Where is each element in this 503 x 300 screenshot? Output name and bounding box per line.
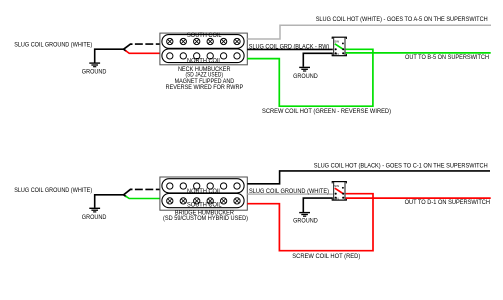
svg-text:SOUTH COIL: SOUTH COIL — [187, 32, 222, 39]
screw polepieces: bridge south coil (bottom row) — [167, 198, 241, 204]
wire: bridge slug coil ground white (gray) to switch — [247, 193, 334, 195]
pickup: bridge humbucker body — [160, 177, 247, 210]
wire: bridge slug coil hot black to superswitch C-1 — [247, 171, 490, 184]
ground (bridge switch) — [299, 213, 310, 217]
pickup: neck humbucker body — [160, 33, 247, 65]
label: SLUG COIL GROUND (WHITE) (bridge, left) — [14, 187, 92, 194]
wire: red out to D-1 — [346, 197, 491, 199]
wire: green lead into bridge pickup — [126, 196, 160, 198]
switch SW1 (neck mini switch) — [332, 37, 347, 56]
svg-text:OUT TO B-5 ON SUPERSWITCH: OUT TO B-5 ON SUPERSWITCH — [405, 54, 489, 61]
caption: BRIDGE HUMBUCKER — [175, 210, 234, 217]
label: SOUTH COIL (bridge) — [187, 202, 222, 209]
caption: REVERSE WIRED FOR RWRP — [166, 84, 244, 91]
switch SW2 (bridge mini switch) — [332, 182, 347, 201]
wire: bridge slug-coil-ground white lead to fork — [95, 195, 124, 208]
svg-text:REVERSE WIRED FOR RWRP: REVERSE WIRED FOR RWRP — [166, 84, 244, 91]
label: GROUND (bridge switch) — [293, 217, 318, 224]
wire: fork upper branch (bridge) — [124, 189, 133, 194]
svg-text:OUT TO D-1 ON SUPERSWITCH: OUT TO D-1 ON SUPERSWITCH — [405, 199, 490, 206]
ground (neck left) — [89, 63, 100, 67]
wire: fork upper branch (black stub to dashed) — [124, 44, 133, 49]
label: SLUG COIL GROUND (WHITE) (bridge switch) — [249, 188, 329, 195]
caption: (SD 59/CUSTOM HYBRID USED) — [163, 215, 248, 222]
label: SLUG COIL GROUND (WHITE) (neck, left) — [14, 41, 92, 48]
svg-text:SCREW COIL HOT (GREEN - REVERS: SCREW COIL HOT (GREEN - REVERSE WIRED) — [262, 108, 391, 115]
svg-text:GROUND: GROUND — [82, 214, 107, 221]
caption: MAGNET FLIPPED AND — [175, 78, 235, 85]
wire: dashed series-link (neck) — [135, 43, 160, 45]
svg-text:SLUG COIL HOT (WHITE) - GOES T: SLUG COIL HOT (WHITE) - GOES TO A-5 ON T… — [316, 16, 488, 23]
svg-text:SLUG COIL GRD (BLACK - RW): SLUG COIL GRD (BLACK - RW) — [249, 43, 329, 50]
svg-text:GROUND: GROUND — [82, 69, 107, 76]
wire: red lead into neck pickup — [126, 51, 160, 54]
wire: switch to ground (bridge) — [303, 198, 334, 212]
svg-text:SW: SW — [334, 184, 339, 188]
slug polepieces: neck north coil (bottom row) — [167, 53, 241, 59]
svg-text:SLUG COIL GROUND (WHITE): SLUG COIL GROUND (WHITE) — [14, 187, 92, 194]
wire: switch to ground (neck) — [303, 53, 334, 67]
svg-text:NORTH COIL: NORTH COIL — [187, 188, 222, 195]
label: SCREW COIL HOT (GREEN - REVERSE WIRED) — [262, 108, 391, 115]
wire: neck slug coil grd black to switch — [247, 48, 334, 50]
slug polepieces: bridge north coil (top row) — [167, 183, 241, 189]
svg-text:SW: SW — [334, 40, 339, 44]
label: OUT TO B-5 ON SUPERSWITCH — [405, 54, 489, 61]
svg-text:NORTH COIL: NORTH COIL — [187, 57, 222, 64]
ground (bridge left) — [89, 208, 100, 212]
caption: (SD JAZZ USED) — [185, 72, 223, 79]
wire: dashed series-link (bridge) — [135, 188, 160, 190]
svg-text:SLUG COIL GROUND (WHITE): SLUG COIL GROUND (WHITE) — [14, 41, 92, 48]
label: SLUG COIL HOT (BLACK) - GOES TO C-1 ON THE SUPERSWITCH — [314, 162, 488, 169]
svg-text:SCREW COIL HOT (RED): SCREW COIL HOT (RED) — [292, 253, 360, 260]
svg-text:GROUND: GROUND — [293, 73, 318, 80]
wire: green out to B-5 — [346, 52, 491, 54]
label: NORTH COIL (bridge) — [187, 188, 222, 195]
svg-text:SLUG COIL GROUND (WHITE): SLUG COIL GROUND (WHITE) — [249, 188, 329, 195]
wire: red screw coil hot loop (bridge) — [247, 194, 373, 251]
label: SLUG COIL HOT (WHITE) - GOES TO A-5 ON THE SUPERSWITCH — [316, 16, 488, 23]
ground (neck switch) — [299, 67, 310, 71]
label: GROUND (neck left) — [82, 69, 107, 76]
wire: green screw coil hot loop (neck) — [247, 49, 373, 106]
wire: neck slug-coil-ground white lead to fork — [95, 49, 124, 62]
svg-text:SLUG COIL HOT (BLACK) - GOES T: SLUG COIL HOT (BLACK) - GOES TO C-1 ON T… — [314, 162, 488, 169]
wire: neck slug coil hot white (gray) to superswitch A-5 — [247, 25, 491, 39]
screw polepieces: neck south coil (top row) — [167, 38, 241, 44]
caption: NECK HUMBUCKER — [178, 66, 231, 73]
wire: fork lower branch (bridge) — [124, 195, 127, 197]
label: NORTH COIL (neck) — [187, 57, 222, 64]
svg-text:SOUTH COIL: SOUTH COIL — [187, 202, 222, 209]
label: OUT TO D-1 ON SUPERSWITCH — [405, 199, 490, 206]
label: SCREW COIL HOT (RED) — [292, 253, 360, 260]
svg-text:(SD 59/CUSTOM HYBRID USED): (SD 59/CUSTOM HYBRID USED) — [163, 215, 248, 222]
wire: fork lower branch (black stub) — [124, 49, 127, 51]
label: SLUG COIL GRD (BLACK - RW) — [249, 43, 329, 50]
label: GROUND (neck switch) — [293, 73, 318, 80]
label: SOUTH COIL (neck) — [187, 32, 222, 39]
svg-text:GROUND: GROUND — [293, 217, 318, 224]
label: GROUND (bridge left) — [82, 214, 107, 221]
